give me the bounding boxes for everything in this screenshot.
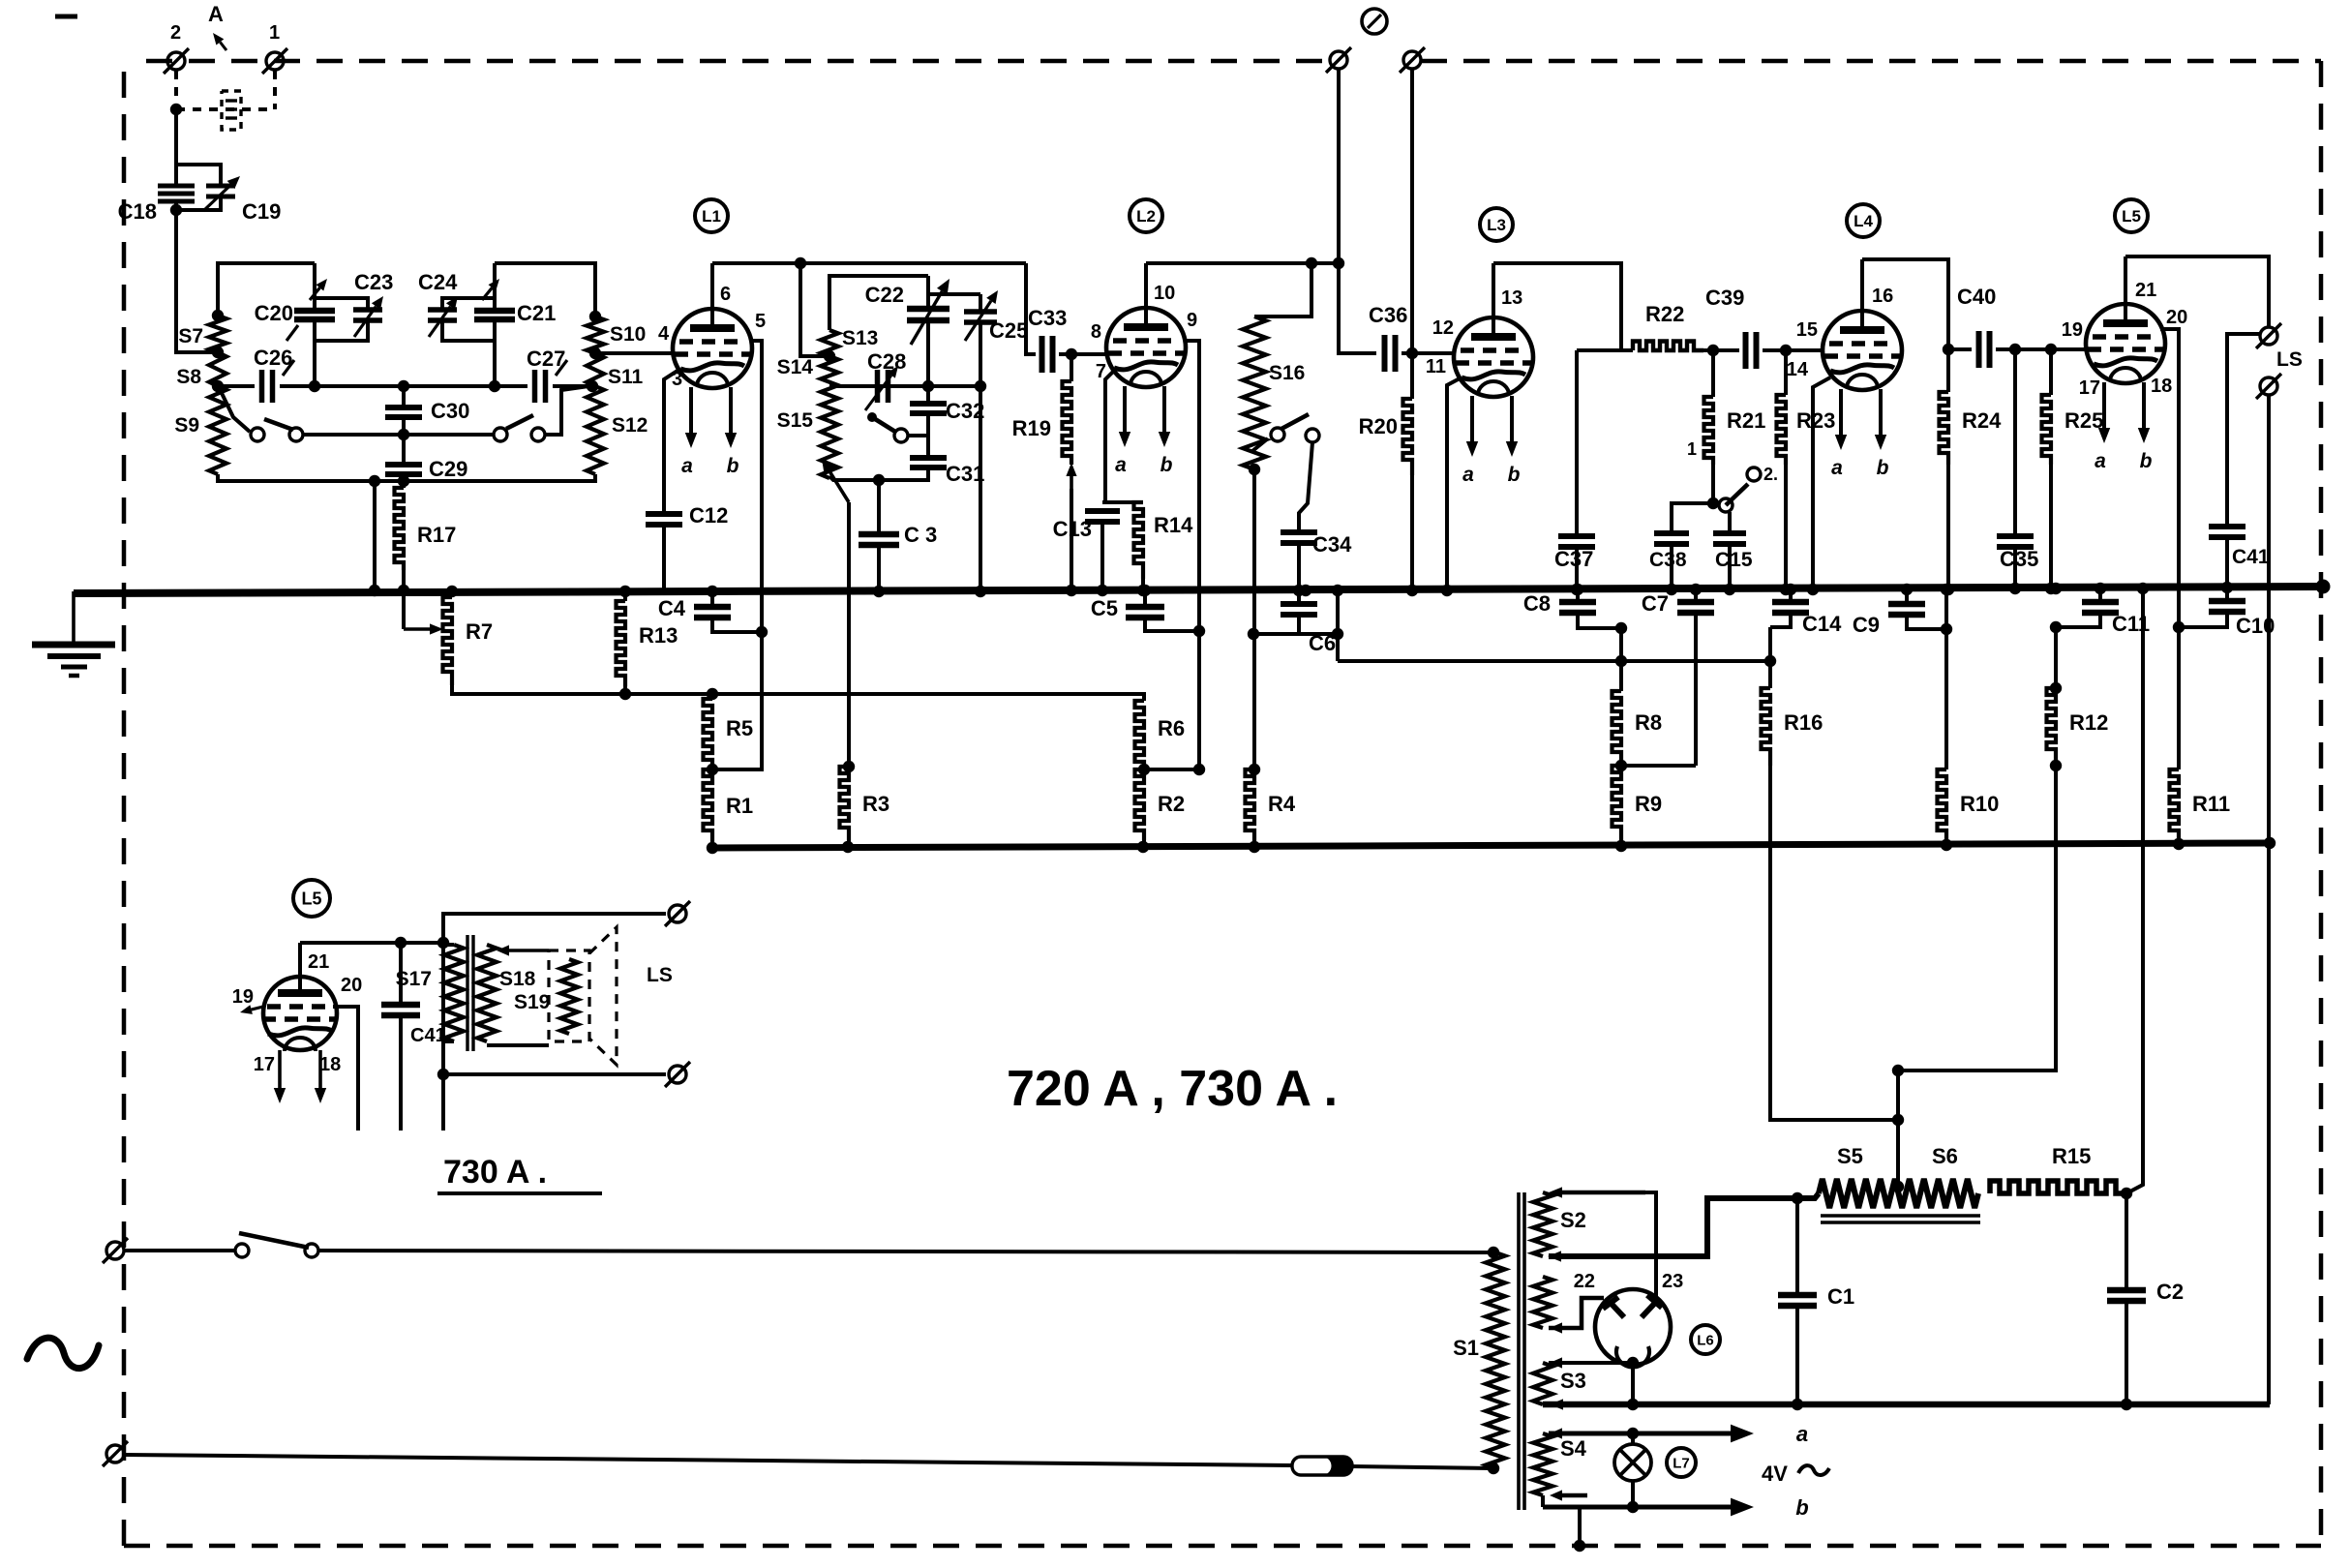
output transformer core xyxy=(466,935,468,1051)
junction S8/S9 tap xyxy=(212,380,224,392)
svg-text:b: b xyxy=(1508,464,1521,486)
tank right block to mid wire xyxy=(493,341,497,386)
tube L5 730A xyxy=(263,977,337,1050)
junction osc tap rail xyxy=(922,380,986,392)
svg-text:S14: S14 xyxy=(777,356,814,378)
svg-text:R6: R6 xyxy=(1158,716,1185,740)
C1 column xyxy=(1795,1198,1799,1293)
svg-text:C15: C15 xyxy=(1715,549,1753,571)
trimmer arrow C26 xyxy=(283,360,294,376)
C9 top stub xyxy=(1905,588,1909,602)
mains switch xyxy=(235,1244,249,1257)
730A pin20 lead xyxy=(333,1007,358,1131)
R19 wiper arrow xyxy=(1066,463,1076,489)
R3 bottom xyxy=(847,840,851,847)
heater output b xyxy=(1543,1498,1754,1517)
C12 to bus xyxy=(662,525,666,589)
dashed lead from terminal 1 xyxy=(273,71,277,109)
dashed link to arrester xyxy=(176,107,275,111)
resistor R24 xyxy=(1940,392,1949,465)
svg-text:a: a xyxy=(1115,454,1127,476)
mains wire switch to transformer xyxy=(318,1251,1492,1252)
svg-text:6: 6 xyxy=(720,284,731,305)
trimmer tick C20 xyxy=(286,325,298,341)
svg-text:21: 21 xyxy=(308,951,329,973)
svg-text:2.: 2. xyxy=(1763,465,1778,484)
capacitor C30 xyxy=(385,407,422,417)
mains wire to switch xyxy=(124,1249,235,1252)
resistor R13 xyxy=(617,601,626,686)
R21 bottom lead xyxy=(1711,465,1715,503)
grid bias heavy rail xyxy=(712,843,2270,848)
capacitor C18 xyxy=(158,186,195,201)
mid wire junctions xyxy=(309,380,598,392)
HT centre tap lead xyxy=(1549,1198,1815,1256)
circled designator L2 xyxy=(1130,199,1162,232)
bus junction dots xyxy=(619,582,2233,597)
top circle marker xyxy=(1362,9,1387,34)
extra speaker terminal top xyxy=(2260,327,2277,345)
C37 to bus xyxy=(1575,547,1579,588)
L2 anode rail xyxy=(1146,261,1339,265)
series trimmer C27 xyxy=(535,370,546,403)
svg-text:720 A , 730 A .: 720 A , 730 A . xyxy=(1007,1061,1338,1117)
AC tilde symbol xyxy=(27,1338,99,1368)
R4 bottom xyxy=(1252,842,1256,847)
osc ground leg xyxy=(979,386,982,589)
tone switch at S16 xyxy=(1271,428,1284,441)
mid wire center segment xyxy=(280,384,527,388)
C15 to bus xyxy=(1728,544,1732,588)
grid rail junction dots xyxy=(707,837,2276,854)
tube L2 xyxy=(1106,308,1186,387)
trimmer arrow C23 xyxy=(354,296,383,337)
svg-text:14: 14 xyxy=(1787,359,1809,380)
S3 bottom arrow xyxy=(1550,1399,1587,1409)
bus right end dot xyxy=(2316,580,2331,594)
junction R5 R1 xyxy=(707,764,718,775)
C3 column xyxy=(877,480,881,532)
R25 top lead xyxy=(2049,349,2053,395)
730A terminal bottom wire xyxy=(443,1072,666,1076)
R11 bottom xyxy=(2177,840,2181,844)
junction R8 R9 xyxy=(1615,760,1627,771)
capacitor C29 xyxy=(385,465,422,474)
circled designator L3 xyxy=(1480,208,1513,241)
C41 to bus xyxy=(2225,537,2229,587)
resistor R6 xyxy=(1135,701,1145,769)
L2 cathode pin 7 lead xyxy=(1105,370,1115,500)
svg-text:C2: C2 xyxy=(2156,1280,2184,1304)
junction R22 R21 xyxy=(1707,345,1719,356)
capacitor C32 xyxy=(910,404,947,413)
pilot lamp bottom lead xyxy=(1631,1480,1635,1507)
svg-text:R15: R15 xyxy=(2052,1144,2091,1168)
resistor R9 xyxy=(1613,766,1622,840)
wire below C19 xyxy=(176,198,221,210)
R5 top lead xyxy=(710,694,714,699)
coil S11 xyxy=(587,353,604,386)
svg-text:R11: R11 xyxy=(2192,792,2230,816)
C13 to bus xyxy=(1100,522,1104,589)
svg-text:C28: C28 xyxy=(867,349,906,374)
svg-text:L5: L5 xyxy=(2122,207,2141,226)
junction L6 cathode rail xyxy=(1627,1357,1639,1410)
C10 top stub xyxy=(2225,587,2229,599)
switch row to S12 curve xyxy=(545,386,588,435)
tank block right top drop xyxy=(442,263,495,308)
C22 column through C32 xyxy=(926,386,930,402)
junction rail R13 xyxy=(619,688,631,700)
C15 top lead xyxy=(1728,512,1732,531)
R8 column top xyxy=(1619,628,1623,691)
svg-text:C13: C13 xyxy=(1053,517,1092,541)
junction C8 R8 xyxy=(1615,622,1627,634)
dashed enclosure border bottom side xyxy=(124,1544,2321,1549)
HT rail junctions xyxy=(1792,1399,2132,1410)
R12 column top xyxy=(2054,627,2058,688)
heater b wire xyxy=(1541,1495,1545,1507)
R19 column top xyxy=(1070,354,1073,381)
junction C1 tap xyxy=(1792,1192,1803,1204)
svg-text:R1: R1 xyxy=(726,794,753,818)
R1 bottom xyxy=(710,842,714,848)
tube L3 heater arrows xyxy=(1462,396,1520,486)
svg-text:C23: C23 xyxy=(354,270,393,294)
730A grid stub arrow xyxy=(240,1005,263,1014)
junction C4 screen xyxy=(756,626,768,638)
rail corner to C33 xyxy=(1026,263,1036,354)
junction terminal bottom xyxy=(437,1069,449,1080)
capacitor C21 xyxy=(474,311,515,319)
switch row wire center xyxy=(303,433,494,437)
junction grid R20 xyxy=(1406,347,1418,359)
C35 to bus xyxy=(2013,547,2017,588)
R9 bottom xyxy=(1619,840,1623,845)
C36 to L3 grid xyxy=(1402,351,1455,355)
tube L5 heater arrows xyxy=(2095,382,2152,472)
detector load R22 xyxy=(1633,342,1703,351)
junction C40 left xyxy=(1943,344,1954,355)
svg-text:R25: R25 xyxy=(2065,408,2103,433)
padder C24 xyxy=(428,310,457,320)
resistor R15 xyxy=(1990,1181,2126,1193)
trimmer arrow C28 xyxy=(865,366,898,410)
wire S10 top to tank rail xyxy=(495,263,595,316)
anode 22 lead xyxy=(1549,1298,1604,1328)
svg-text:11: 11 xyxy=(1426,356,1446,377)
circled designator L1 xyxy=(695,199,728,232)
capacitor C10 xyxy=(2209,601,2246,612)
svg-text:C33: C33 xyxy=(1028,306,1067,330)
rectifier tube L6 xyxy=(1595,1289,1671,1365)
svg-text:A: A xyxy=(208,2,224,26)
junction S16 bottom xyxy=(1249,464,1260,475)
svg-text:C21: C21 xyxy=(517,301,556,325)
R10 column xyxy=(1944,591,1948,769)
grid resistor R23 xyxy=(1777,395,1787,465)
grid leak R20 xyxy=(1403,399,1413,475)
HT negative heavy bottom rail xyxy=(1543,1402,2270,1408)
svg-text:R24: R24 xyxy=(1962,408,2002,433)
osc switch to column xyxy=(908,434,928,437)
730A output terminal top xyxy=(669,905,686,922)
svg-text:LS: LS xyxy=(2276,348,2303,371)
svg-text:730 A .: 730 A . xyxy=(443,1154,547,1191)
730A anode lead xyxy=(298,943,302,977)
C2 column xyxy=(2125,1193,2128,1288)
coil S10 xyxy=(587,317,604,353)
svg-text:C5: C5 xyxy=(1091,596,1118,620)
C6 bottom rail xyxy=(1253,632,1338,636)
trimmer arrow C23 upper xyxy=(310,279,327,300)
L1 cathode pin 3 lead xyxy=(664,369,680,513)
screen tap drop xyxy=(373,481,377,589)
svg-text:a: a xyxy=(2095,450,2106,472)
dashed enclosure border top-left segment xyxy=(146,59,1330,64)
svg-text:C40: C40 xyxy=(1957,285,1996,309)
C6 bottom link xyxy=(1297,615,1301,634)
junction mid wire at C30 xyxy=(398,380,409,392)
R17 arrow into R7 xyxy=(404,623,443,634)
junction rail S16 drop xyxy=(1306,257,1317,269)
svg-text:8: 8 xyxy=(1091,321,1101,343)
C8 top stub xyxy=(1576,588,1580,600)
capacitor C41 730A xyxy=(381,1005,420,1015)
R19 column bottom xyxy=(1070,489,1073,589)
svg-text:19: 19 xyxy=(232,986,254,1008)
line R22 to C39 xyxy=(1703,348,1739,352)
wire below C18 xyxy=(174,203,178,210)
tube L3 xyxy=(1454,317,1533,397)
svg-text:15: 15 xyxy=(1796,319,1818,341)
svg-text:S7: S7 xyxy=(178,325,203,347)
capacitor C34 xyxy=(1281,532,1317,543)
C33 to L2 grid xyxy=(1059,352,1107,356)
trimmer arrow C22 xyxy=(911,279,949,345)
junction C30 switch row xyxy=(398,429,409,440)
svg-text:C18: C18 xyxy=(118,199,157,224)
junction R25 top xyxy=(2045,344,2057,355)
C40 to L5 grid xyxy=(1996,347,2087,351)
link to C38 xyxy=(1672,503,1713,531)
svg-text:C10: C10 xyxy=(2236,614,2275,638)
svg-text:18: 18 xyxy=(319,1054,341,1075)
C32 to C31 xyxy=(926,415,930,456)
S18 top arrow link xyxy=(497,945,549,955)
mains bottom wire to fuse xyxy=(124,1455,1292,1465)
antenna terminal 1 xyxy=(266,52,284,70)
C29 to bottom rail xyxy=(402,474,406,481)
svg-text:21: 21 xyxy=(2135,280,2156,301)
C14 top stub xyxy=(1789,588,1793,600)
svg-text:L7: L7 xyxy=(1673,1455,1690,1471)
choke S16 xyxy=(1243,317,1266,469)
730A heater arrow b xyxy=(315,1050,326,1103)
svg-text:C37: C37 xyxy=(1554,547,1593,571)
L2 screen pin 9 lead xyxy=(1186,341,1199,631)
svg-text:a: a xyxy=(1462,464,1474,486)
junction S1 top xyxy=(1488,1247,1499,1258)
screen column to R5 junction xyxy=(712,632,762,769)
L5 grid entry xyxy=(2051,347,2087,351)
C3 to bus xyxy=(877,545,881,589)
junction below C18 xyxy=(170,204,182,216)
line into C40 xyxy=(1948,347,1972,351)
svg-text:C9: C9 xyxy=(1853,613,1880,637)
capacitor C14 xyxy=(1772,602,1809,613)
osc switch contact xyxy=(894,429,908,442)
R16 long drop xyxy=(1770,766,1898,1120)
coupling capacitor C40 xyxy=(1979,331,1990,368)
svg-text:L4: L4 xyxy=(1854,212,1873,230)
C41 link from terminal xyxy=(2227,334,2261,525)
wire antenna to C18/C19 xyxy=(174,109,178,165)
junction lamp a xyxy=(1627,1428,1639,1439)
L3 cathode lead xyxy=(1447,377,1462,589)
wire C18 to aerial coil xyxy=(176,210,215,352)
mains fuse xyxy=(1292,1457,1352,1475)
svg-text:R8: R8 xyxy=(1635,710,1662,735)
svg-text:b: b xyxy=(727,455,739,477)
HT winding lower half xyxy=(1533,1277,1552,1328)
R21 top lead xyxy=(1711,350,1715,397)
C22 drop xyxy=(926,276,930,307)
svg-text:S10: S10 xyxy=(610,323,646,346)
C14 bottom link xyxy=(1770,613,1791,627)
svg-text:S15: S15 xyxy=(777,409,814,432)
C7 bottom column xyxy=(1694,613,1698,766)
C35 column xyxy=(2013,349,2017,534)
svg-text:R5: R5 xyxy=(726,716,753,740)
junction anode rail at 827 xyxy=(795,257,806,269)
svg-text:C30: C30 xyxy=(431,399,469,423)
series trimmer C28 xyxy=(878,370,889,403)
junction S13/S14 xyxy=(824,350,835,362)
junction bottom border xyxy=(1574,1540,1585,1552)
trimmer C25 xyxy=(964,312,997,322)
R6 top corner xyxy=(1142,699,1146,703)
rectifier winding tap top xyxy=(1549,1187,1645,1197)
svg-text:C27: C27 xyxy=(527,347,565,371)
svg-text:C8: C8 xyxy=(1523,591,1551,616)
dashed lead from terminal 2 xyxy=(174,71,178,109)
svg-text:19: 19 xyxy=(2062,319,2083,341)
resistor R5 xyxy=(704,699,713,769)
junction pickup rail xyxy=(1333,257,1344,269)
R25 bottom lead xyxy=(2049,465,2053,588)
pilot lamp L7 xyxy=(1614,1444,1651,1481)
R12 long drop xyxy=(1898,766,2056,1070)
S3 top lead xyxy=(1549,1361,1633,1365)
pickup terminal left xyxy=(1330,51,1347,69)
C11 bottom link xyxy=(2056,613,2100,627)
junction R23 top xyxy=(1780,345,1792,356)
C41b column xyxy=(399,943,403,1002)
L5 plate rail to LS terminal xyxy=(2125,256,2269,326)
svg-text:20: 20 xyxy=(2166,307,2187,328)
C34 to bus xyxy=(1297,543,1301,589)
C2 bottom xyxy=(2125,1301,2128,1404)
coupling capacitor C36 xyxy=(1385,335,1396,372)
tuning block bottom rail xyxy=(218,474,595,481)
svg-text:12: 12 xyxy=(1432,317,1454,339)
junction R12 bottom xyxy=(2050,760,2062,771)
C7 top stub xyxy=(1694,588,1698,600)
extra speaker terminal bottom xyxy=(2260,377,2277,395)
junction L2 grid xyxy=(1066,348,1077,360)
resistor R8 xyxy=(1613,691,1622,766)
svg-text:C38: C38 xyxy=(1649,549,1687,571)
C8 bottom link xyxy=(1578,613,1621,628)
svg-text:L5: L5 xyxy=(301,889,321,908)
circled designator L7 xyxy=(1667,1448,1696,1477)
svg-text:10: 10 xyxy=(1154,283,1175,304)
R10 bottom xyxy=(1944,840,1948,844)
svg-text:S16: S16 xyxy=(1269,362,1305,384)
730A output terminal bottom xyxy=(669,1066,686,1083)
L1 anode to top rail xyxy=(710,263,714,309)
svg-text:C1: C1 xyxy=(1827,1284,1854,1309)
heater winding S3 xyxy=(1533,1363,1552,1404)
svg-text:b: b xyxy=(2140,450,2153,472)
svg-text:17: 17 xyxy=(2079,377,2100,399)
junction wiper column xyxy=(1892,1065,1904,1126)
svg-text:C34: C34 xyxy=(1312,532,1352,557)
junction S1 bottom xyxy=(1488,1462,1499,1474)
corner mark xyxy=(55,15,77,19)
svg-text:13: 13 xyxy=(1501,287,1522,309)
C30 to C29 xyxy=(402,417,406,463)
capacitor C9 xyxy=(1888,604,1925,615)
mains fuse to transformer xyxy=(1352,1466,1492,1468)
ground lead from bus xyxy=(72,591,75,643)
svg-text:R7: R7 xyxy=(466,619,493,644)
svg-text:9: 9 xyxy=(1187,310,1197,331)
dashed enclosure border right side xyxy=(2319,61,2324,1546)
C39 to L4 grid xyxy=(1763,348,1824,352)
S4 bottom arrow xyxy=(1550,1490,1587,1500)
wiper column xyxy=(1896,1070,1900,1191)
R3 feed column xyxy=(847,502,851,767)
svg-text:1: 1 xyxy=(1687,439,1697,459)
junction R12 top xyxy=(2050,682,2062,694)
heater output a xyxy=(1549,1425,1754,1443)
junction R4 top xyxy=(1249,764,1260,775)
circled designator L6 xyxy=(1691,1325,1720,1354)
R24 top lead xyxy=(1946,349,1950,392)
svg-text:L1: L1 xyxy=(702,207,721,226)
capacitor C20 xyxy=(294,311,335,319)
svg-text:R20: R20 xyxy=(1359,414,1398,438)
wire C18 top node xyxy=(176,165,221,185)
L3 anode lead xyxy=(1492,263,1495,317)
wiper arrow into S15 xyxy=(822,459,849,502)
resistor R10 xyxy=(1938,769,1947,840)
coupling capacitor C33 xyxy=(1042,336,1053,373)
resistor R14 xyxy=(1134,502,1144,579)
junction C10 R11 xyxy=(2173,621,2185,633)
svg-text:C12: C12 xyxy=(689,503,728,528)
resistor R21 xyxy=(1704,397,1714,465)
potentiometer S5 S6 xyxy=(1819,1179,1978,1208)
tank left block to mid wire xyxy=(313,341,316,386)
tube L5 xyxy=(2086,304,2165,383)
junction R6 bottom xyxy=(1138,764,1150,775)
R23 top lead xyxy=(1784,350,1788,395)
junction AVC C6 xyxy=(1332,628,1343,640)
svg-text:LS: LS xyxy=(647,964,673,986)
